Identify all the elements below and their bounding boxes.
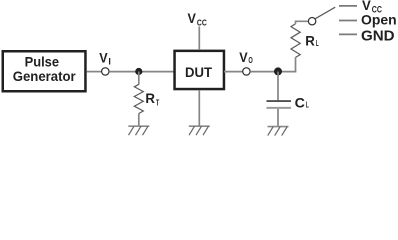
pulse generator box (3, 51, 86, 91)
ground below DUT (189, 126, 210, 135)
switch contact VCC (339, 5, 357, 7)
svg-text:I: I (108, 57, 111, 67)
wire DUT to VO terminal (224, 71, 243, 73)
switch contact Open (339, 20, 357, 22)
switch contact GND (339, 33, 357, 35)
node VI terminal circle (102, 68, 109, 75)
ground below CL (268, 127, 289, 136)
switch arm (315, 7, 335, 19)
node VO terminal circle (243, 68, 250, 75)
DUT box (175, 51, 224, 89)
capacitor CL top plate (267, 100, 292, 102)
wire RL bottom lead (295, 57, 297, 72)
resistor RL zigzag (291, 24, 300, 58)
svg-text:DUT: DUT (185, 64, 212, 80)
svg-text:GND: GND (361, 28, 395, 45)
junction dot at VI node (135, 68, 142, 75)
svg-text:C: C (295, 94, 305, 110)
wire DUT bottom to ground (198, 90, 200, 126)
wire VCC to DUT top (198, 27, 200, 51)
wire RL top lead to switch pole (296, 21, 308, 24)
switch pole circle (308, 18, 315, 25)
wire junction down to RT (138, 72, 140, 85)
wire box to VI terminal (87, 71, 102, 73)
capacitor CL bottom plate (267, 107, 292, 109)
svg-text:T: T (156, 98, 159, 107)
svg-text:Generator: Generator (13, 68, 77, 84)
wire VO junction down to CL (277, 72, 279, 101)
resistor RT zigzag (134, 84, 143, 113)
svg-text:V: V (99, 50, 108, 66)
wire CL to ground (277, 109, 279, 127)
wire RT to ground (138, 114, 140, 127)
svg-text:V: V (188, 10, 197, 26)
svg-text:V: V (239, 49, 248, 65)
svg-text:R: R (145, 90, 155, 106)
svg-text:L: L (316, 39, 319, 48)
junction dot at VO node (274, 67, 282, 75)
wire VI terminal to DUT (109, 71, 174, 73)
ground below RT (128, 126, 149, 135)
svg-text:O: O (248, 56, 252, 65)
svg-text:Pulse: Pulse (25, 53, 60, 69)
svg-text:CC: CC (197, 18, 207, 27)
svg-text:Open: Open (361, 12, 397, 28)
svg-text:L: L (306, 101, 309, 110)
svg-text:R: R (305, 32, 315, 48)
wire VO terminal to RL corner (250, 71, 296, 73)
